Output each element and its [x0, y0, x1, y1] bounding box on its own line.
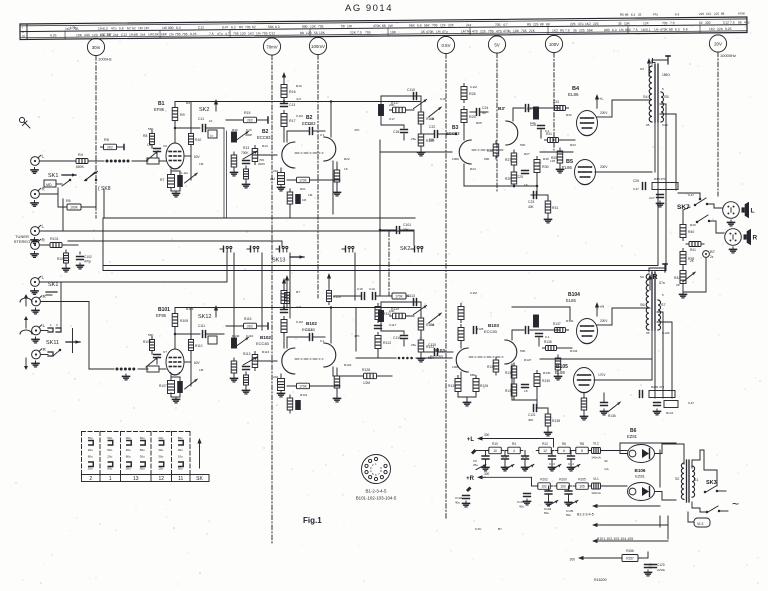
svg-text:200V: 200V	[600, 165, 608, 169]
svg-text:2K2: 2K2	[247, 118, 253, 122]
svg-text:35: 35	[638, 13, 642, 17]
svg-text:C11: C11	[502, 455, 508, 459]
svg-text:1K: 1K	[344, 167, 349, 171]
svg-text:1%: 1%	[256, 31, 261, 35]
svg-text:C110: C110	[407, 88, 415, 92]
R136 box	[389, 293, 409, 299]
svg-text:S7a: S7a	[659, 281, 665, 285]
svg-text:88: 88	[382, 24, 386, 28]
tube B5 EL86	[575, 160, 596, 185]
svg-text:705: 705	[495, 23, 501, 27]
svg-text:56: 56	[341, 24, 345, 28]
long bus y=270.5	[103, 270, 666, 272]
svg-text:5: 5	[372, 472, 374, 476]
svg-text:C10: C10	[246, 128, 252, 132]
svg-text:2K2: 2K2	[107, 145, 113, 149]
svg-text:5.6: 5.6	[119, 26, 124, 30]
svg-text:705: 705	[245, 25, 251, 29]
input jack 3 (L)	[31, 224, 45, 244]
svg-text:125: 125	[550, 159, 555, 163]
rectifier B106 oval 2	[628, 483, 655, 501]
svg-text:240: 240	[270, 177, 275, 181]
svg-text:10K: 10K	[153, 32, 160, 36]
volume pot R113	[243, 352, 258, 371]
svg-text:2x50u: 2x50u	[657, 568, 666, 572]
lower rail drop 356	[355, 308, 357, 352]
svg-text:56K: 56K	[148, 333, 154, 337]
R108	[143, 337, 155, 355]
left verticals to buses	[102, 218, 104, 271]
svg-text:6.3: 6.3	[275, 25, 280, 29]
svg-text:1K: 1K	[524, 389, 529, 393]
svg-text:680: 680	[484, 157, 489, 161]
svg-text:35: 35	[421, 30, 425, 34]
svg-text:88: 88	[721, 12, 725, 16]
ballast VL2	[592, 448, 601, 454]
svg-text:R27: R27	[505, 158, 511, 162]
svg-text:2x4: 2x4	[140, 33, 146, 37]
svg-text:R25: R25	[469, 115, 476, 119]
tube B102 half b	[324, 343, 336, 367]
svg-text:10000Hz: 10000Hz	[720, 53, 736, 58]
wafer contacts col 2	[88, 436, 94, 471]
grid resistors R28/R27/R29	[487, 141, 499, 159]
tube B102 half a	[282, 348, 295, 374]
svg-text:170K: 170K	[395, 294, 403, 298]
wafer contacts col 13	[140, 436, 146, 471]
feedback row lower	[640, 391, 643, 398]
cathode R107	[159, 381, 175, 394]
svg-text:+L: +L	[599, 96, 604, 101]
svg-text:R110: R110	[195, 344, 203, 348]
svg-text:R16200: R16200	[594, 578, 607, 582]
svg-text:R40: R40	[688, 230, 694, 234]
svg-text:56K: 56K	[148, 127, 154, 131]
svg-text:470K: 470K	[426, 30, 435, 34]
svg-text:S7: S7	[661, 303, 666, 307]
svg-text:1: 1	[109, 476, 112, 482]
svg-text:C13: C13	[549, 462, 555, 466]
svg-text:R8: R8	[143, 134, 147, 138]
svg-text:ECC83: ECC83	[257, 135, 271, 140]
input jack 1 (L)	[31, 154, 45, 174]
heater resistor R12	[539, 447, 552, 454]
R130	[522, 371, 551, 390]
svg-text:R100: R100	[559, 478, 567, 482]
svg-text:0.1M: 0.1M	[296, 114, 303, 118]
svg-text:50u: 50u	[544, 511, 549, 515]
svg-text:R13: R13	[243, 146, 249, 150]
capacitor C11	[198, 117, 224, 131]
svg-text:2x4: 2x4	[113, 33, 119, 37]
pot	[413, 305, 426, 314]
svg-text:R7: R7	[160, 178, 164, 182]
svg-text:R42: R42	[674, 276, 680, 280]
svg-text:1%: 1%	[619, 28, 624, 32]
svg-text:1000Hz: 1000Hz	[98, 57, 112, 62]
svg-text:120: 120	[306, 31, 312, 35]
svg-text:60V: 60V	[194, 361, 201, 365]
resistor R10 striped	[189, 131, 202, 181]
svg-text:50K: 50K	[428, 356, 435, 360]
svg-text:22K: 22K	[350, 31, 357, 35]
B2b output down	[332, 161, 334, 214]
dash-dot vertical x389	[388, 232, 390, 296]
line from C23 to B5 grid	[540, 151, 573, 153]
svg-text:56: 56	[314, 31, 318, 35]
svg-text:R105: R105	[578, 478, 586, 482]
R139 cathode	[555, 355, 562, 380]
grid line with dots	[89, 368, 114, 370]
voltage measurement table	[20, 11, 750, 39]
svg-text:C22: C22	[429, 125, 435, 129]
treble pot	[429, 107, 442, 117]
switch contact SK8	[84, 171, 97, 181]
lower transformer T-R	[640, 272, 666, 330]
R123 supply	[327, 273, 341, 305]
svg-text:30o: 30o	[178, 448, 183, 452]
svg-text:ECC83: ECC83	[256, 341, 270, 346]
svg-text:R132: R132	[566, 319, 574, 323]
R35 cathode	[551, 148, 564, 173]
svg-text:12K: 12K	[310, 25, 317, 29]
svg-text:R5: R5	[104, 138, 109, 142]
C120 2x50u	[645, 563, 666, 576]
svg-text:B7: B7	[498, 527, 502, 531]
svg-text:L: L	[42, 154, 45, 159]
wafer contacts col 13	[126, 436, 132, 471]
svg-text:56: 56	[738, 20, 742, 24]
svg-text:R22: R22	[344, 157, 350, 161]
svg-text:10o: 10o	[158, 467, 163, 471]
SK3 switch	[692, 450, 728, 513]
svg-text:50K: 50K	[520, 143, 526, 147]
svg-text:1M: 1M	[138, 26, 143, 30]
svg-text:6.3: 6.3	[612, 28, 617, 32]
svg-text:100K: 100K	[452, 365, 460, 369]
svg-text:900: 900	[604, 28, 610, 32]
R138	[543, 340, 573, 351]
svg-text:100K: 100K	[70, 205, 78, 209]
output y=386 R 170K	[287, 385, 296, 387]
resistor R26 anode	[461, 84, 476, 103]
svg-text:200V: 200V	[258, 162, 265, 166]
svg-text:240: 240	[273, 375, 278, 379]
svg-text:III: III	[22, 34, 25, 38]
svg-text:1M: 1M	[144, 26, 149, 30]
C121 40k	[528, 405, 548, 422]
svg-text:SK2: SK2	[400, 246, 410, 252]
svg-text:705: 705	[488, 29, 494, 33]
B2b anode to rail	[330, 102, 332, 138]
svg-text:50o: 50o	[88, 436, 93, 440]
secondary taps verticals	[660, 104, 666, 271]
svg-text:R133: R133	[487, 365, 495, 369]
heater resistor R4	[508, 447, 521, 454]
svg-text:47u: 47u	[217, 32, 223, 36]
svg-text:470p: 470p	[84, 260, 91, 264]
heater resistor R100	[557, 483, 570, 490]
test point 100V	[545, 35, 562, 150]
svg-text:R140 470: R140 470	[651, 385, 664, 389]
grid stopper box	[147, 158, 166, 164]
svg-text:0.1: 0.1	[100, 33, 105, 37]
svg-text:80o: 80o	[107, 467, 112, 471]
B102b cathode	[334, 368, 341, 402]
svg-text:R156: R156	[626, 549, 634, 553]
svg-text:22K: 22K	[448, 23, 455, 27]
svg-text:25u: 25u	[411, 343, 416, 347]
svg-text:R26: R26	[469, 92, 476, 96]
svg-text:705: 705	[175, 32, 181, 36]
transformer top tap lower	[649, 268, 665, 272]
svg-text:+R: +R	[466, 476, 475, 482]
svg-text:700K: 700K	[241, 151, 249, 155]
svg-text:30m: 30m	[92, 45, 101, 50]
svg-text:25u: 25u	[473, 463, 478, 467]
svg-text:0.1M: 0.1M	[470, 85, 477, 89]
resistor R6 100k	[58, 190, 96, 210]
svg-text:C?: C?	[163, 350, 167, 354]
svg-text:C1A: C1A	[369, 287, 376, 291]
svg-text:AG 9014: AG 9014	[345, 3, 393, 14]
svg-text:1: 1	[50, 323, 52, 327]
svg-text:4u7: 4u7	[296, 305, 301, 309]
svg-text:88: 88	[625, 13, 629, 17]
svg-text:R38 470: R38 470	[654, 177, 666, 181]
svg-text:470K: 470K	[660, 28, 669, 32]
svg-text:50K: 50K	[520, 349, 526, 353]
caps row L	[473, 451, 580, 471]
svg-text:40u: 40u	[519, 505, 524, 509]
chain wires	[682, 210, 684, 224]
resistor R120	[418, 131, 435, 156]
output transformer T-L	[643, 64, 670, 122]
coupling C14 to B2b	[287, 122, 325, 142]
svg-text:1%: 1%	[169, 32, 174, 36]
main L signal line into grid	[380, 151, 452, 153]
tube B4 EL86	[577, 111, 598, 136]
branch striped lower	[287, 395, 300, 413]
svg-text:7.5: 7.5	[565, 29, 570, 33]
wire: jack1 to R4, dotted section	[40, 160, 73, 162]
svg-text:C24: C24	[482, 106, 488, 110]
svg-text:6.3: 6.3	[675, 12, 680, 16]
svg-text:300: 300	[570, 558, 576, 562]
long vertical x380	[379, 140, 381, 295]
svg-text:B101-102-103-104-105: B101-102-103-104-105	[597, 537, 633, 541]
grid network R133/R131/R132	[487, 357, 499, 375]
svg-text:88: 88	[669, 28, 673, 32]
svg-text:SK1: SK1	[48, 282, 58, 288]
pot arrow on R10	[185, 173, 198, 183]
svg-text:R113: R113	[383, 341, 391, 345]
svg-text:680K: 680K	[76, 165, 85, 169]
svg-text:R113: R113	[262, 350, 269, 354]
svg-text:C121: C121	[528, 413, 536, 417]
B105 cathode parts	[581, 393, 588, 420]
rail drop 191	[190, 308, 192, 340]
svg-text:22K: 22K	[717, 27, 724, 31]
svg-text:R16: R16	[296, 84, 302, 88]
transformer top tap	[652, 60, 668, 64]
svg-text:R6: R6	[562, 442, 566, 446]
capacitor C102 470p	[63, 252, 92, 272]
C119	[393, 336, 407, 347]
svg-text:C16: C16	[440, 97, 446, 101]
svg-text:R122: R122	[344, 363, 352, 367]
B101 anode coupling C111	[175, 333, 200, 335]
vertical link x=234	[233, 253, 235, 340]
B103b to output	[512, 330, 524, 340]
svg-text:1.1kv: 1.1kv	[181, 171, 189, 175]
B4 screen supply arrow	[596, 98, 598, 108]
R121	[418, 315, 434, 333]
capacitor C22 coupling	[424, 125, 457, 142]
svg-text:VL2: VL2	[593, 442, 599, 446]
svg-text:10: 10	[493, 449, 497, 453]
svg-text:B1-2-3-4-5: B1-2-3-4-5	[577, 513, 594, 517]
R156/R157	[619, 549, 648, 562]
svg-text:100V: 100V	[549, 42, 559, 47]
svg-text:6.3V: 6.3V	[475, 527, 482, 531]
lower rail	[174, 308, 176, 314]
svg-text:SK1: SK1	[48, 173, 58, 179]
svg-text:705: 705	[365, 30, 371, 34]
grid wire into B2a	[258, 154, 277, 156]
svg-text:56K: 56K	[424, 23, 431, 27]
svg-text:140mA: 140mA	[591, 456, 601, 460]
heater resistor R102	[538, 483, 551, 490]
R128 1/2M	[361, 368, 393, 385]
svg-text:R25: R25	[476, 121, 482, 125]
svg-text:56K: 56K	[409, 24, 416, 28]
svg-text:50o: 50o	[107, 448, 112, 452]
svg-text:120: 120	[240, 32, 246, 36]
vertical link x=290	[289, 253, 291, 318]
capacitor C28	[530, 123, 544, 138]
left parts x=234 lower	[231, 358, 238, 382]
svg-text:47u: 47u	[442, 30, 448, 34]
svg-text:R102: R102	[540, 478, 548, 482]
svg-text:R113: R113	[243, 352, 251, 356]
svg-text:SK13: SK13	[272, 258, 285, 264]
B3b to output	[513, 108, 524, 121]
svg-text:R130: R130	[542, 379, 550, 383]
R41	[686, 242, 704, 253]
svg-text:R157: R157	[626, 556, 634, 560]
svg-text:C12: C12	[723, 21, 729, 25]
speaker L	[723, 202, 755, 219]
svg-text:EL86: EL86	[568, 92, 579, 97]
svg-text:1M: 1M	[302, 198, 307, 202]
svg-text:40u: 40u	[455, 501, 460, 505]
svg-text:35: 35	[573, 28, 577, 32]
svg-text:30o: 30o	[178, 467, 183, 471]
svg-text:12: 12	[158, 476, 164, 482]
resistor R31	[545, 195, 559, 223]
svg-text:R121: R121	[300, 393, 308, 397]
resistor R118	[418, 109, 434, 127]
svg-text:R29: R29	[505, 177, 511, 181]
svg-text:22K: 22K	[529, 29, 536, 33]
svg-text:10K: 10K	[319, 31, 326, 35]
svg-text:R5: R5	[239, 25, 243, 29]
svg-text:900: 900	[302, 25, 308, 29]
svg-text:R40: R40	[232, 128, 238, 132]
cathode dark res	[178, 382, 183, 393]
tube B2 half b	[324, 137, 336, 161]
resistor R30	[534, 157, 549, 176]
output line y=180 with R 170K	[287, 179, 296, 181]
PSU verticals	[659, 450, 661, 487]
svg-text:R16: R16	[289, 90, 296, 94]
svg-text:225: 225	[570, 22, 576, 26]
svg-text:170V: 170V	[598, 373, 606, 377]
arrows far left	[20, 294, 32, 306]
svg-text:6.3: 6.3	[176, 26, 181, 30]
small box under SK2	[208, 130, 217, 138]
svg-text:R141: R141	[666, 411, 674, 415]
pot2	[429, 313, 442, 323]
svg-text:20K: 20K	[389, 103, 395, 107]
R112 vertical chain x=378	[375, 304, 391, 352]
bass pot	[413, 99, 426, 108]
svg-text:C120: C120	[657, 563, 665, 567]
heater dash B102	[295, 358, 323, 360]
C126	[536, 334, 543, 347]
test point 100mV	[309, 37, 326, 298]
splitter wires	[463, 164, 465, 186]
B5 anode wire	[595, 171, 652, 173]
svg-text:1K2: 1K2	[552, 29, 558, 33]
test point 30m	[87, 38, 111, 218]
svg-text:B102: B102	[260, 335, 271, 340]
svg-text:225: 225	[533, 22, 539, 26]
svg-text:C112: C112	[305, 328, 313, 332]
svg-text:SK: SK	[196, 476, 203, 482]
svg-text:1u: 1u	[210, 134, 214, 138]
svg-text:56: 56	[107, 33, 111, 37]
svg-text:SK11: SK11	[46, 340, 59, 346]
svg-text:VL3: VL3	[697, 522, 703, 526]
+L supply arrow	[648, 62, 650, 76]
secondary verticals lower	[657, 312, 663, 398]
svg-text:10K: 10K	[76, 33, 83, 37]
tube B105	[574, 368, 595, 393]
svg-text:mA: mA	[604, 467, 610, 471]
resistor R101 680k (tuner R)	[40, 237, 78, 248]
svg-text:R115: R115	[244, 317, 252, 321]
svg-text:95: 95	[646, 331, 650, 335]
svg-text:100mV: 100mV	[311, 44, 325, 49]
svg-text:R136: R136	[608, 414, 616, 418]
R39	[680, 249, 694, 268]
svg-text:1%: 1%	[654, 28, 659, 32]
cathode network wires/gnd	[170, 169, 172, 174]
svg-text:C8: C8	[163, 144, 167, 148]
svg-text:C29: C29	[662, 123, 668, 127]
svg-text:102: 102	[541, 484, 547, 488]
C19/C1A series caps	[334, 287, 390, 299]
svg-text:R40: R40	[690, 223, 696, 227]
input jack 6 (R)	[32, 294, 47, 314]
svg-text:R15: R15	[244, 111, 250, 115]
svg-text:C110: C110	[246, 334, 253, 338]
svg-text:R27: R27	[524, 152, 530, 156]
svg-text:SK12: SK12	[198, 314, 211, 320]
svg-text:R9: R9	[180, 113, 185, 117]
